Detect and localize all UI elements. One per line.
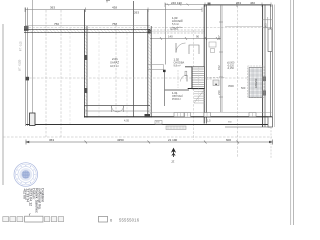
right wing top wall [204, 4, 272, 6]
svg-text:460: 460 [250, 1, 255, 5]
svg-text:758: 758 [112, 22, 117, 26]
svg-text:ker. dlažba: ker. dlažba [172, 26, 183, 29]
svg-text:140: 140 [168, 35, 173, 39]
svg-text:5,6 m²: 5,6 m² [172, 23, 179, 26]
right wing left wall double [204, 5, 206, 124]
stair top wall [185, 66, 192, 68]
faint grid vertical terrace [69, 28, 71, 124]
window 5 [249, 113, 256, 117]
window mullions [178, 113, 253, 117]
svg-text:42,5 m²: 42,5 m² [110, 64, 119, 68]
door arc hall [181, 75, 188, 82]
stair side wall [188, 88, 205, 90]
wall block mid [145, 114, 151, 118]
upper dim line 750 y25.5 [25, 25, 150, 27]
extra wall line x274.7 [274, 5, 276, 128]
toolbar box 1 [3, 217, 9, 222]
page box [99, 216, 108, 222]
extension dashed vertical right1 [270, 127, 272, 158]
garage bottom wall line [84, 105, 150, 107]
grid dashed vertical E [193, 30, 195, 140]
garage left wall [84, 10, 87, 118]
far right wall pair [270, 5, 272, 128]
digital signature rotated text [22, 188, 44, 213]
svg-text:55555016: 55555016 [119, 217, 140, 222]
dimension chain dashed y27.7 [25, 27, 271, 29]
svg-text:246 130: 246 130 [171, 1, 182, 5]
grid vertical x165 [164, 3, 166, 65]
svg-text:263: 263 [236, 1, 241, 5]
staircase lower flight [194, 68, 204, 104]
digital signature stamp: outer ring [14, 163, 38, 187]
overall dimension line y142 [26, 140, 272, 145]
band centre line [150, 31, 205, 33]
garage right / middle wall [148, 10, 151, 118]
toolbar box 6 [58, 217, 63, 222]
grid dashed vertical F [237, 6, 239, 158]
faint grid vertical garage 2 [126, 33, 128, 116]
stamp ring text dots [16, 165, 35, 184]
top dimension line left y9.5 [25, 8, 202, 13]
stair small rect left [185, 71, 187, 76]
section line D [133, 1, 135, 117]
svg-text:90: 90 [196, 35, 200, 39]
bench rectangle right of stairs [213, 80, 219, 86]
right page border line [290, 0, 292, 225]
toolbar box 3 [17, 217, 23, 222]
right wing inner horizontal faint [225, 26, 262, 28]
bottom wall right double [225, 126, 272, 128]
svg-text:152: 152 [217, 65, 221, 70]
grid dashed vertical C [115, 25, 117, 112]
svg-text:363: 363 [49, 138, 54, 142]
svg-text:3500: 3500 [228, 84, 234, 88]
bottom exterior wall upper line [84, 116, 272, 118]
tick above toolbar [29, 213, 31, 216]
wall corner node left [24, 26, 29, 31]
svg-text:438: 438 [112, 6, 117, 10]
top wall dashed continuation right section [150, 30, 205, 33]
toolbar wide box [25, 216, 43, 222]
door arc entry [176, 43, 186, 53]
window sill line [150, 112, 272, 114]
window 3 [185, 113, 191, 117]
svg-text:POKOJ: POKOJ [172, 98, 181, 101]
svg-text:1,5: 1,5 [207, 120, 211, 123]
chimney tall rect [268, 29, 272, 52]
svg-text:-0,150: -0,150 [227, 67, 234, 70]
entry wall jog [189, 45, 199, 54]
left grid vertical x32.5 [32, 0, 34, 126]
staircase upper flight [192, 67, 204, 89]
svg-text:750: 750 [54, 22, 59, 26]
wall top corner tick [208, 3, 211, 6]
door axis dashed [177, 70, 179, 88]
window 4 [204, 113, 211, 117]
svg-text:U.T. -0,020: U.T. -0,020 [20, 59, 22, 71]
corner pillar [30, 113, 36, 126]
faint grid vertical garage 1 [98, 33, 100, 116]
paving rect below wall [166, 126, 186, 130]
interior wall corner dark [163, 70, 166, 72]
top right dimension line y4.5 [165, 3, 271, 8]
top tick marks +0.000 [106, 1, 110, 3]
grid dashed vertical B [60, 10, 62, 137]
interior wall horizontal y90 [165, 89, 189, 91]
toolbar box 5 [51, 217, 56, 222]
wall niche box 1 [262, 77, 266, 82]
top exterior wall hatched band [24, 29, 150, 32]
right wing wall end block [268, 117, 273, 127]
svg-text:2.01: 2.01 [112, 57, 118, 61]
svg-text:+02'00': +02'00' [22, 188, 26, 200]
left wall node square [25, 77, 29, 81]
interior corridor wall band [148, 65, 164, 70]
interior wall vertical [164, 72, 166, 106]
svg-text:9,8 m²: 9,8 m² [174, 65, 181, 68]
exterior stair hatched block [248, 66, 264, 98]
fixtures wc [209, 42, 216, 47]
bottom exterior wall lower line [26, 124, 272, 126]
window 1 [155, 121, 162, 125]
svg-text:363: 363 [50, 6, 55, 10]
svg-text:JZ: JZ [171, 160, 175, 164]
svg-text:263: 263 [134, 11, 139, 15]
right wall double outer [263, 5, 265, 128]
svg-text:4350: 4350 [117, 138, 124, 142]
svg-text:21 190: 21 190 [168, 138, 178, 142]
right wall ticks [262, 20, 273, 28]
left dimension pair verticals [25, 8, 27, 127]
grid dashed vertical A [45, 10, 47, 137]
garage door arc [112, 106, 124, 112]
svg-text:4,05: 4,05 [124, 120, 129, 123]
wall corner node mid [148, 30, 152, 34]
svg-text:600: 600 [226, 138, 231, 142]
vertical dimension line x221 [219, 5, 223, 112]
window 2 [174, 113, 184, 117]
north arrow [172, 149, 175, 158]
svg-text:305: 305 [264, 23, 268, 28]
left page border line [2, 24, 4, 185]
stair left edge [191, 67, 193, 89]
toolbar box 4 [44, 217, 49, 222]
extra wall line x267.8 [267, 17, 269, 29]
stamp inner emblem [19, 168, 32, 181]
svg-text:307: 307 [217, 35, 221, 40]
garage terrace edge [84, 110, 150, 112]
mid horizontal dashed datum line [29, 77, 249, 79]
svg-text:500: 500 [241, 86, 246, 90]
svg-text:180/250: 180/250 [254, 78, 258, 88]
wall niche box 2 [262, 91, 266, 96]
interior dimension line y38.5 [150, 37, 221, 40]
svg-text:210: 210 [217, 90, 221, 95]
svg-text:P.T. -0,15: P.T. -0,15 [21, 41, 23, 51]
toolbar box 2 [10, 217, 16, 222]
lower dashed line y137 [3, 136, 272, 138]
dashed pair to bench [207, 76, 226, 78]
